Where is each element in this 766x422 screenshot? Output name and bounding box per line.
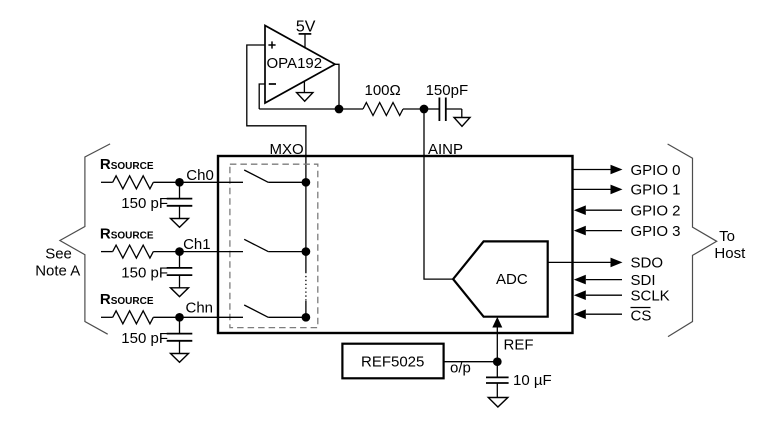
capacitor 150 pF (Ch0): [121, 182, 192, 218]
wire REF5025 o/p to REF node: [444, 360, 498, 377]
ADC converter block: [453, 241, 548, 316]
pin SCLK input arrow: [574, 288, 670, 305]
channel Chn: resistor R_SOURCE: [100, 291, 243, 324]
svg-text:Host: Host: [714, 245, 746, 262]
capacitor 150 pF (Chn): [121, 317, 192, 353]
svg-text:o/p: o/p: [450, 360, 471, 377]
wire output rail: [259, 108, 363, 110]
voltage reference REF5025: [342, 344, 443, 379]
switch SW1: [244, 239, 306, 251]
mux common rail: [305, 182, 307, 317]
node mux rail junction 0: [302, 178, 311, 187]
ADC chip box: [218, 156, 573, 333]
svg-text:GPIO 0: GPIO 0: [631, 162, 681, 179]
switch SW0: [244, 170, 306, 182]
svg-text:ADC: ADC: [496, 271, 528, 288]
node output junction: [335, 105, 344, 114]
ground (Ch1 cap): [171, 288, 189, 297]
wire op-amp non-inverting input from MXO: [247, 45, 306, 182]
capacitor C 150pF (AINP): [424, 82, 468, 121]
svg-text:See: See: [45, 246, 72, 263]
svg-text:GPIO 1: GPIO 1: [631, 182, 681, 199]
pin GPIO 3 input arrow: [574, 223, 681, 240]
svg-text:150 pF: 150 pF: [121, 330, 168, 347]
svg-text:100Ω: 100Ω: [365, 82, 401, 99]
pin SDO output arrow with wire from ADC: [548, 255, 663, 272]
svg-text:REF5025: REF5025: [361, 354, 424, 371]
svg-text:OPA192: OPA192: [267, 55, 323, 72]
svg-text:GPIO 2: GPIO 2: [631, 203, 681, 220]
svg-text:GPIO 3: GPIO 3: [631, 223, 681, 240]
svg-text:Ch0: Ch0: [186, 167, 214, 184]
svg-text:Ch1: Ch1: [183, 236, 211, 253]
svg-text:150 pF: 150 pF: [121, 264, 168, 281]
node Ch0 junction: [175, 178, 184, 187]
brace See Note A: [35, 144, 110, 334]
svg-text:CS: CS: [631, 308, 652, 325]
svg-text:To: To: [719, 228, 735, 245]
ground (Chn cap): [171, 354, 189, 363]
node Chn junction: [175, 313, 184, 322]
pin CS input arrow (active low): [574, 308, 652, 325]
svg-text:150pF: 150pF: [426, 82, 469, 99]
node AINP junction: [420, 105, 429, 114]
op-amp U1 OPA192: [265, 26, 335, 104]
wire AINP to ADC: [424, 109, 453, 279]
capacitor 10 µF: [486, 362, 552, 398]
svg-text:Note A: Note A: [35, 263, 80, 280]
wire op-amp output: [335, 64, 339, 109]
svg-text:SCLK: SCLK: [631, 288, 670, 305]
ground (10 µF cap): [488, 398, 508, 408]
capacitor 150 pF (Ch1): [121, 252, 192, 288]
pin SDI input arrow: [574, 272, 656, 289]
node REF junction: [493, 357, 502, 366]
wire feedback output to inverting input: [259, 84, 265, 109]
channel Ch0: resistor R_SOURCE: [100, 156, 243, 189]
node mux rail junction n: [302, 313, 311, 322]
svg-text:SDO: SDO: [631, 255, 664, 272]
pin GPIO 2 input arrow: [574, 203, 681, 220]
ground (Ch0 cap): [171, 219, 189, 228]
ground (AINP cap): [454, 109, 470, 126]
channel Ch1: resistor R_SOURCE: [100, 226, 243, 259]
pin GPIO 1 output arrow: [573, 182, 681, 199]
svg-text:5V: 5V: [296, 19, 316, 36]
svg-text:10 µF: 10 µF: [513, 372, 552, 389]
switch SWn: [244, 305, 306, 317]
pin REF arrow into ADC: [492, 317, 533, 362]
ground (op-amp): [297, 82, 313, 102]
svg-text:150 pF: 150 pF: [121, 195, 168, 212]
5V supply: [296, 19, 316, 49]
multiplexer dashed box: [230, 164, 318, 327]
resistor 100Ω: [363, 82, 424, 116]
pin GPIO 0 output arrow: [573, 162, 681, 179]
node Ch1 junction: [175, 247, 184, 256]
svg-text:Chn: Chn: [186, 300, 214, 317]
svg-text:SDI: SDI: [631, 272, 656, 289]
brace To Host: [668, 144, 746, 337]
svg-text:REF: REF: [504, 337, 534, 354]
node mux rail junction 1: [302, 247, 311, 256]
